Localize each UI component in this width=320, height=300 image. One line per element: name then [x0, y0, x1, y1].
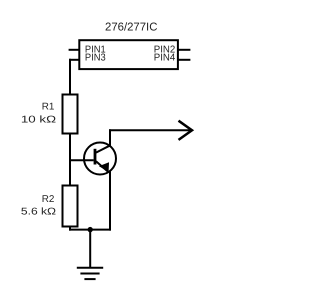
- svg-text:PIN3: PIN3: [85, 53, 106, 64]
- wire collector up: [109, 129, 111, 146]
- IC U1 body: [79, 40, 178, 69]
- wire collector output: [109, 129, 191, 131]
- svg-text:R1: R1: [42, 102, 55, 113]
- svg-text:5.6 kΩ: 5.6 kΩ: [21, 207, 56, 218]
- ground: [77, 268, 103, 279]
- resistor R1: [63, 95, 78, 134]
- svg-text:R2: R2: [42, 194, 55, 205]
- pin stub PIN2: [177, 49, 190, 51]
- transistor Q1 circle: [84, 143, 116, 175]
- wire R2 bottom down: [69, 227, 71, 231]
- wire emitter down: [109, 172, 111, 231]
- pin stub PIN3: [69, 59, 80, 61]
- transistor Q1 emitter arrowhead: [100, 163, 109, 172]
- transistor Q1 base bar: [94, 149, 97, 165]
- svg-text:10 kΩ: 10 kΩ: [21, 115, 56, 126]
- transistor Q1 collector stroke: [96, 145, 111, 152]
- pin stub PIN1: [69, 49, 80, 51]
- junction dot node E: [88, 227, 93, 232]
- wire R1 to R2: [69, 134, 71, 187]
- output arrow head: [179, 121, 193, 140]
- transistor Q1 emitter stroke: [96, 161, 109, 172]
- resistor R2: [63, 186, 78, 227]
- wire base branch to Q1: [69, 159, 94, 161]
- pin stub PIN4: [177, 59, 190, 61]
- wire bottom node horizontal: [69, 229, 111, 231]
- wire ground stem: [89, 230, 91, 268]
- svg-text:PIN4: PIN4: [154, 53, 176, 64]
- svg-text:276/277IC: 276/277IC: [105, 21, 157, 33]
- wire PIN3 stub down to R1: [69, 59, 71, 95]
